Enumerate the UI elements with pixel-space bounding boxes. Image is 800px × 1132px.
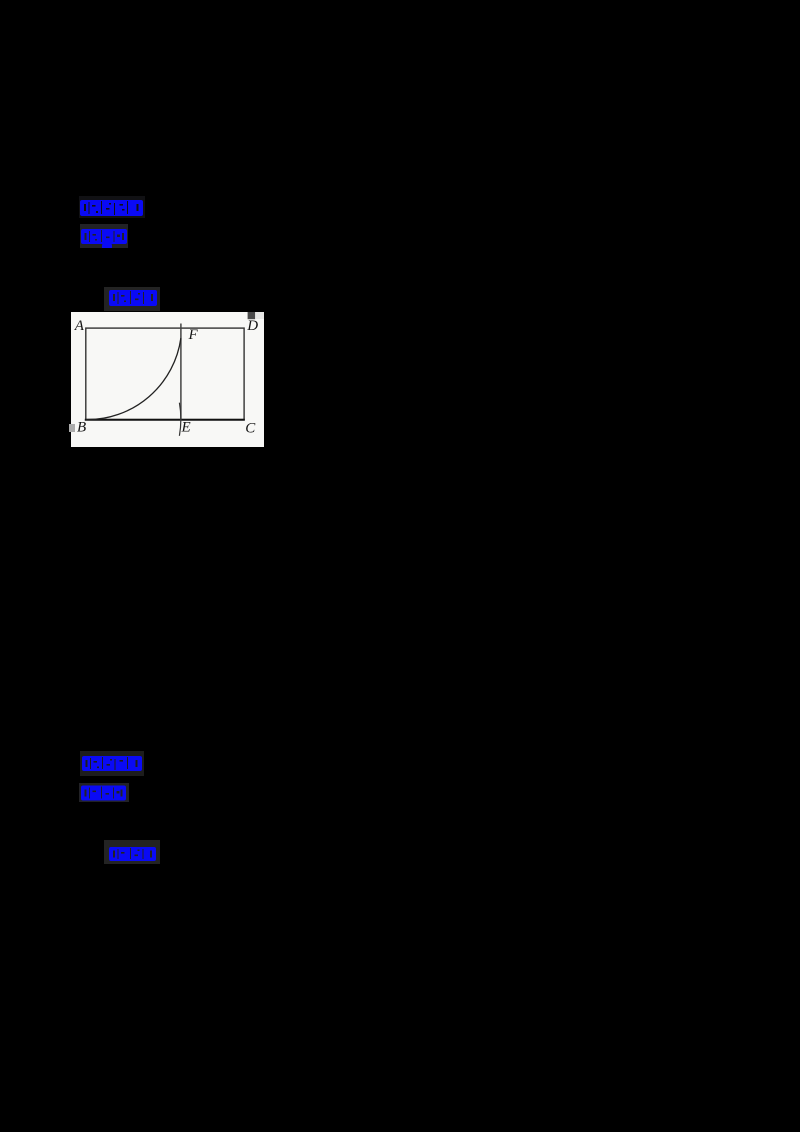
label block 6: 【解析】 highlight (indented) xyxy=(104,840,160,864)
svg-text:F: F xyxy=(188,327,199,343)
svg-text:A: A xyxy=(74,318,85,334)
bottom edge BC (darker) xyxy=(85,419,245,421)
svg-text:B: B xyxy=(77,420,86,436)
label block 2: 【答案】 highlight xyxy=(80,224,128,248)
rectangle ABCD xyxy=(86,328,244,420)
label block 5: 【答案】 highlight xyxy=(79,783,129,802)
label block 3: 【解析】 highlight (indented) xyxy=(104,287,160,311)
svg-text:E: E xyxy=(181,419,191,435)
small compass arc through E (centered at B) xyxy=(179,403,180,436)
label block 1: 【知识点】 highlight xyxy=(79,196,145,218)
segment EF vertical line xyxy=(180,324,182,421)
svg-text:D: D xyxy=(246,318,258,334)
arc B to F (centered near A) xyxy=(86,338,181,420)
figure panel xyxy=(71,312,264,447)
gray bullet artifact near B (left edge of figure) xyxy=(69,424,75,432)
gray square artifact near D xyxy=(248,312,256,319)
svg-text:C: C xyxy=(245,421,256,437)
label block 4: 【知识点】 highlight xyxy=(80,751,144,776)
vertex labels xyxy=(74,318,258,437)
